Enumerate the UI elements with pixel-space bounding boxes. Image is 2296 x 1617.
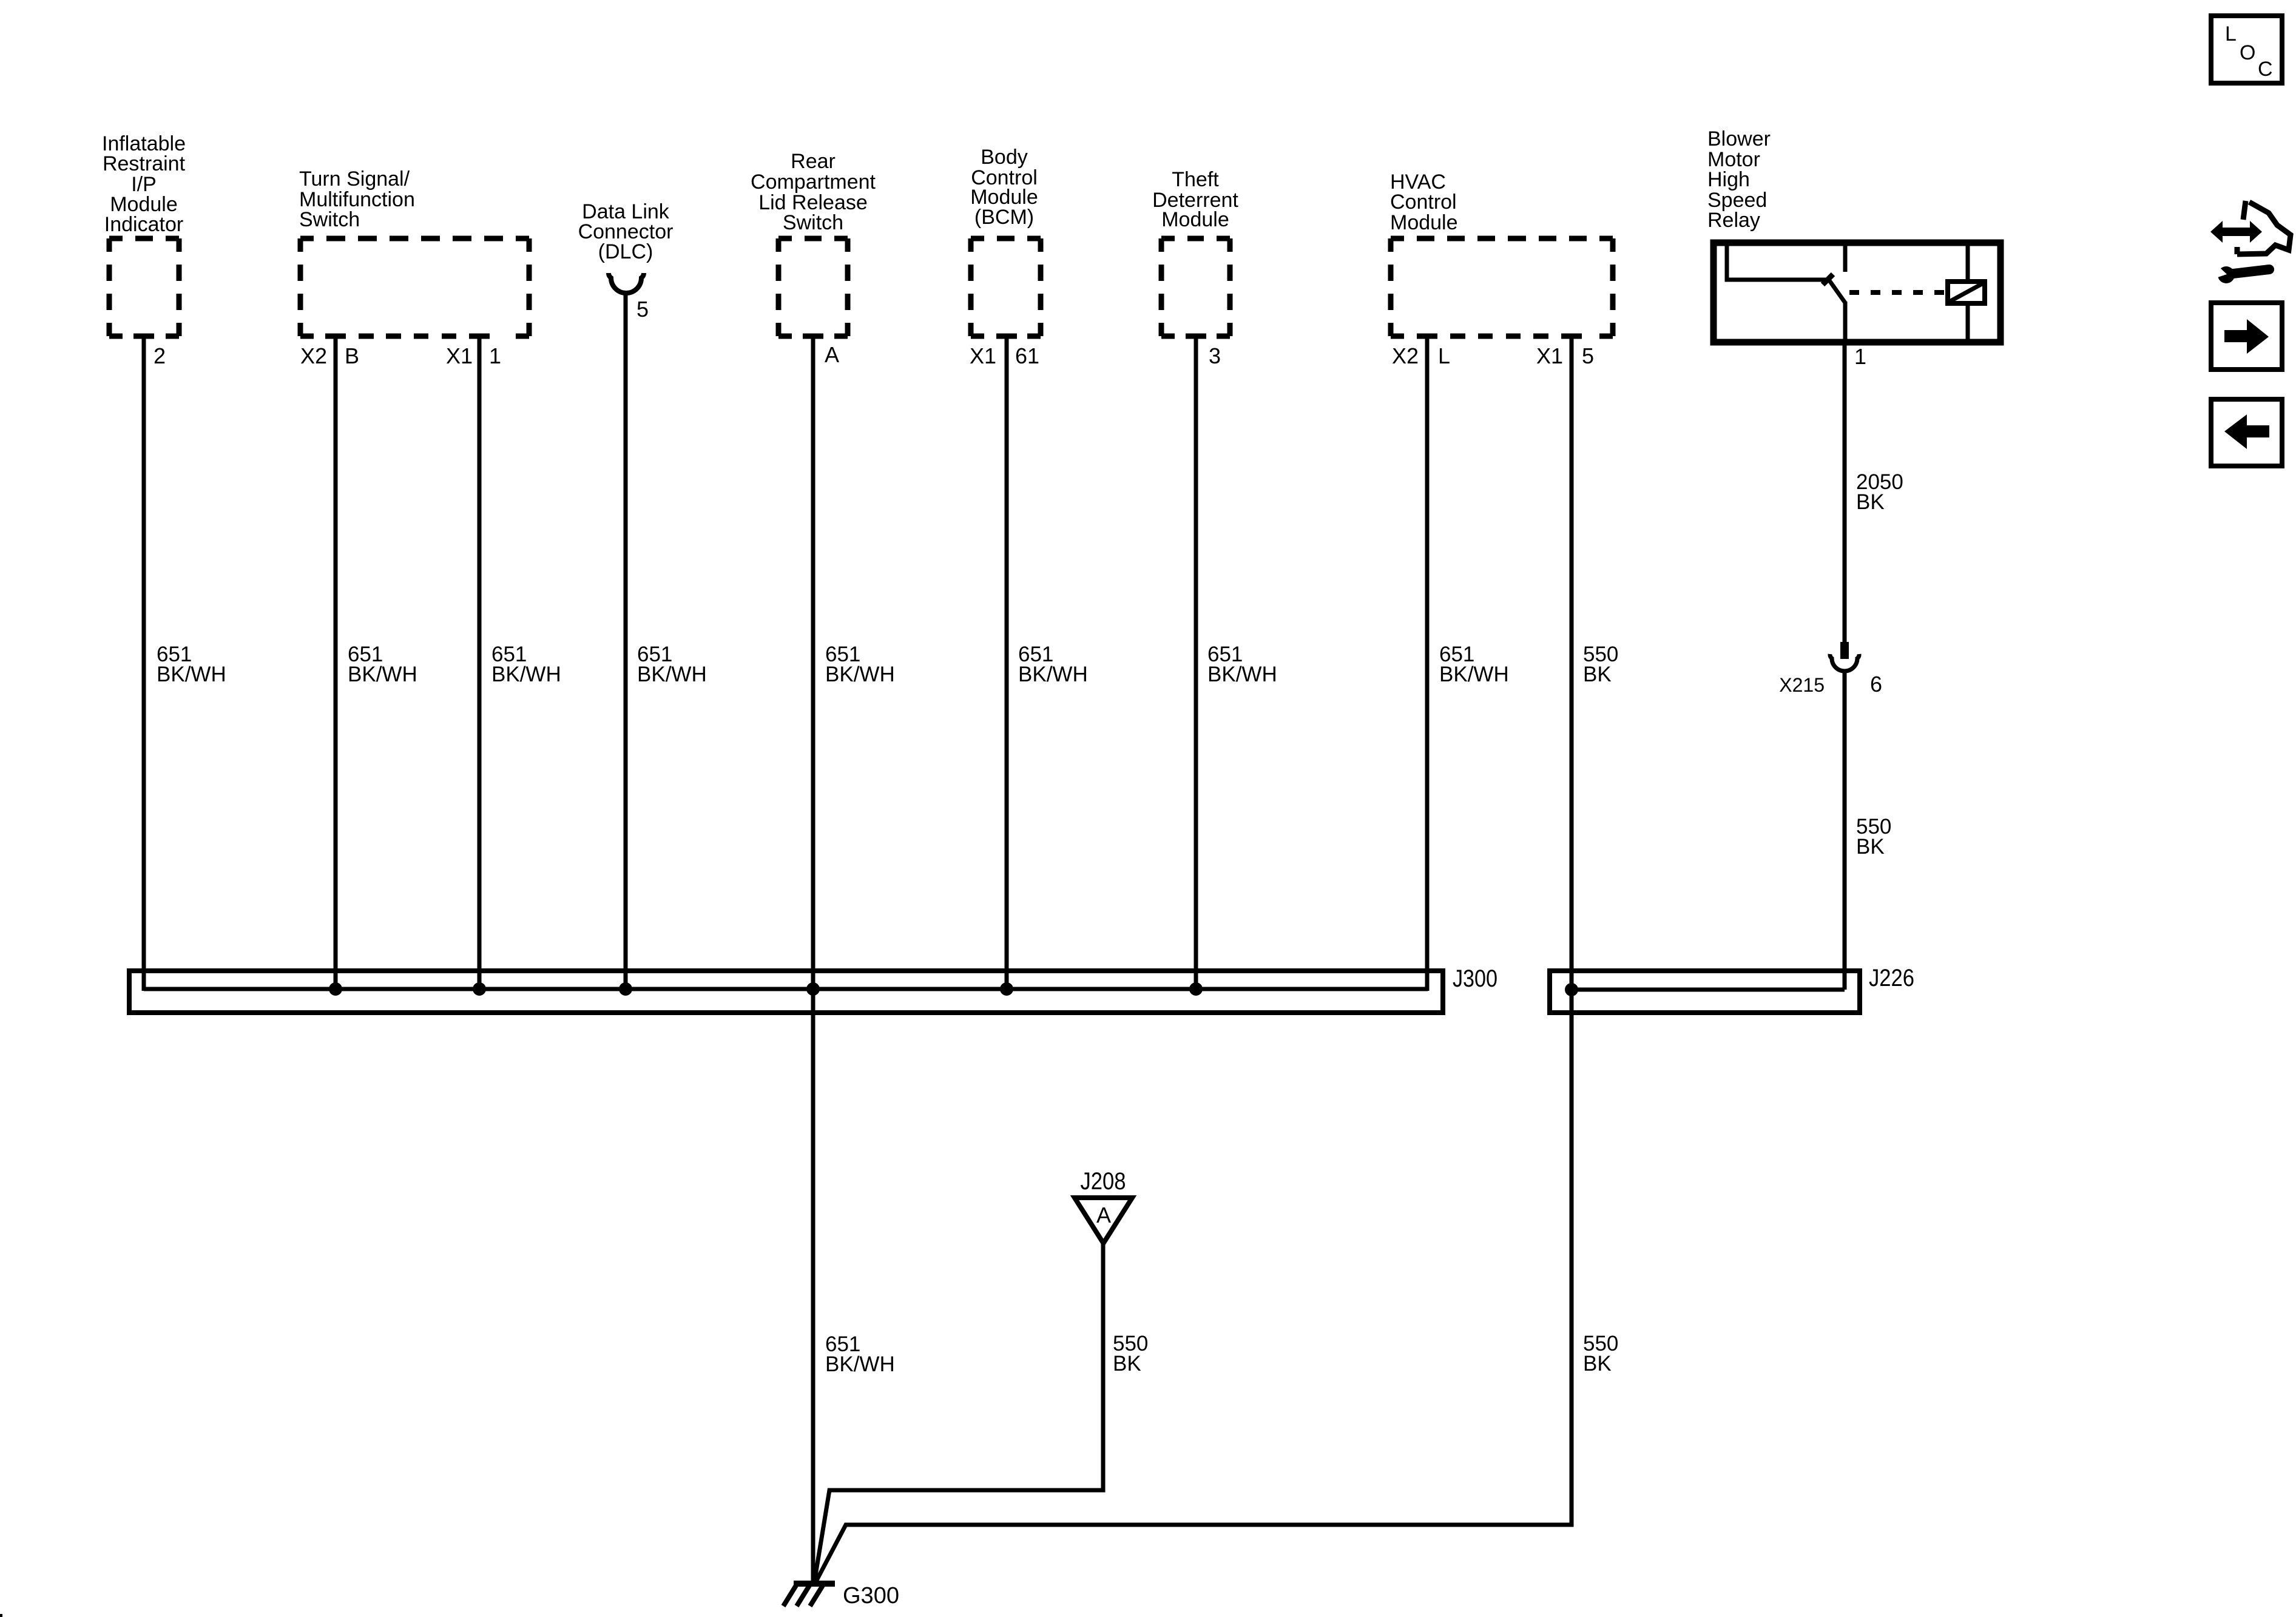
- wire label 550 BK (X215): [1856, 815, 1891, 859]
- wire label 651 BK/WH (M2 right): [491, 643, 561, 686]
- wire: J208 to G300 (550 BK): [814, 1243, 1103, 1582]
- wire: M2 pin X1-1 to J300 (651 BK/WH): [478, 336, 482, 991]
- pin label 1: [489, 343, 501, 368]
- module M4 box: BCM (dashed): [971, 238, 1041, 336]
- wire label 651 BK/WH (M2 left): [348, 643, 417, 686]
- svg-text:Compartment: Compartment: [751, 170, 876, 194]
- wire label 651 BK/WH (M3): [825, 643, 895, 686]
- svg-text:BK/WH: BK/WH: [1439, 663, 1509, 686]
- svg-text:X2: X2: [300, 343, 327, 368]
- wire: J300 to G300 (651 BK/WH): [811, 989, 815, 1584]
- wire label 651 BK/WH (HVAC): [1439, 643, 1509, 686]
- wire: X215 to J226 (550 BK): [1843, 671, 1847, 990]
- svg-text:L: L: [1438, 343, 1450, 368]
- svg-text:L: L: [2225, 22, 2237, 46]
- wire: DLC pin 5 to J300 (651 BK/WH): [624, 293, 628, 991]
- label G300: [843, 1583, 899, 1609]
- module M2 label: Turn Signal/Multifunction Switch: [299, 167, 415, 231]
- pin label B: [345, 343, 359, 368]
- svg-text:BK/WH: BK/WH: [157, 663, 226, 686]
- svg-text:Turn Signal/: Turn Signal/: [299, 167, 410, 191]
- module M3 label: Rear Compartment Lid Release Switch: [751, 150, 876, 234]
- wire label 651 BK/WH (ground leg): [825, 1332, 895, 1376]
- wire: HVAC pin X1-5 to J226 (550 BK): [1570, 336, 1574, 990]
- pin label 61: [1015, 343, 1039, 368]
- relay K1 coil box: [1948, 282, 1985, 303]
- splice pack J300 outline: [129, 971, 1443, 1013]
- icon: harness outline: [2237, 201, 2291, 254]
- splice pack J226 bus line: [1572, 988, 1845, 992]
- svg-text:C: C: [2258, 58, 2273, 81]
- svg-text:BK: BK: [1583, 1352, 1612, 1376]
- wire: HVAC pin X2-L to J300 (651 BK/WH): [1425, 336, 1430, 991]
- svg-text:61: 61: [1015, 343, 1039, 368]
- svg-text:J300: J300: [1453, 965, 1497, 992]
- module M5 box: Theft Deterrent Module (dashed): [1161, 238, 1230, 336]
- svg-text:X1: X1: [446, 343, 473, 368]
- svg-text:(DLC): (DLC): [598, 240, 653, 263]
- svg-text:BK: BK: [1856, 835, 1885, 859]
- relay K1 coil leads: [1966, 243, 1970, 342]
- pin label X2 (HVAC): [1392, 343, 1419, 368]
- page speck bottom-left: [0, 1614, 2, 1617]
- svg-text:X1: X1: [970, 343, 996, 368]
- module M1 box: Inflatable Restraint I/P Module Indicator (dashed): [109, 238, 179, 336]
- pin label 5 (DLC): [636, 297, 649, 322]
- splice pack J226 outline: [1550, 971, 1860, 1013]
- svg-text:Body: Body: [981, 146, 1028, 169]
- svg-text:J226: J226: [1869, 965, 1914, 991]
- label J226: [1869, 965, 1914, 991]
- inline connector X215 male terminal: [1840, 642, 1849, 659]
- pin label L: [1438, 343, 1450, 368]
- svg-text:2: 2: [154, 343, 166, 368]
- svg-text:5: 5: [1582, 343, 1594, 368]
- svg-text:G300: G300: [843, 1583, 899, 1609]
- relay K1 output lead to pin 1: [1843, 302, 1848, 342]
- module M6 box: HVAC Control Module (dashed): [1391, 238, 1613, 336]
- svg-text:6: 6: [1870, 672, 1882, 697]
- svg-text:BK/WH: BK/WH: [491, 663, 561, 686]
- relay K1 switch arm: [1829, 280, 1845, 303]
- relay K1 common feed (inner L line): [1727, 243, 1829, 280]
- svg-text:Module: Module: [1161, 208, 1229, 231]
- wire label 550 BK (HVAC): [1583, 643, 1618, 686]
- junction dot on J226: [1565, 983, 1578, 996]
- wire label 651 BK/WH (BCM): [1018, 643, 1088, 686]
- svg-text:A: A: [825, 342, 839, 367]
- svg-text:Indicator: Indicator: [104, 213, 183, 236]
- svg-text:Switch: Switch: [783, 211, 843, 234]
- svg-text:BK/WH: BK/WH: [1207, 663, 1277, 686]
- svg-text:5: 5: [636, 297, 649, 322]
- pin label X1: [446, 343, 473, 368]
- wire label 550 BK (J208 leg): [1113, 1332, 1148, 1376]
- pin label 2: [154, 343, 166, 368]
- splice pack J300 bus line: [144, 987, 1428, 991]
- relay K1 contact nub: [1823, 274, 1833, 285]
- wire label 651 BK/WH (M1): [157, 643, 226, 686]
- icon: arrow-left box: [2211, 399, 2282, 466]
- connector symbol: DLC female terminal (cup): [609, 273, 644, 293]
- svg-text:A: A: [1096, 1203, 1111, 1227]
- ground G300 symbol: [783, 1584, 835, 1606]
- pin label X2: [300, 343, 327, 368]
- svg-text:Switch: Switch: [299, 208, 360, 231]
- svg-text:Control: Control: [1390, 191, 1457, 214]
- relay label: Blower Motor High Speed Relay: [1707, 127, 1771, 232]
- svg-text:BK: BK: [1113, 1352, 1141, 1376]
- svg-text:High: High: [1707, 168, 1750, 191]
- wire: M2 pin X2-B to J300 (651 BK/WH): [334, 336, 338, 991]
- label J300: [1453, 965, 1497, 992]
- relay K1 fixed contact stub: [1843, 243, 1848, 272]
- wire label 2050 BK: [1856, 470, 1903, 514]
- pin label 5 (HVAC): [1582, 343, 1594, 368]
- relay K1 actuation dashed link: [1849, 290, 1946, 295]
- svg-text:BK/WH: BK/WH: [348, 663, 417, 686]
- icon: harness double arrow: [2210, 221, 2262, 243]
- svg-text:Theft: Theft: [1172, 168, 1219, 191]
- svg-text:(BCM): (BCM): [974, 206, 1034, 229]
- module M6 label: HVAC Control Module: [1390, 170, 1458, 234]
- svg-text:X215: X215: [1779, 674, 1825, 696]
- svg-text:X1: X1: [1536, 343, 1563, 368]
- junction dots on J300: [329, 982, 1203, 996]
- junction J208 triangle: [1075, 1198, 1132, 1243]
- wire label 651 BK/WH (M5): [1207, 643, 1277, 686]
- svg-text:Relay: Relay: [1707, 209, 1760, 232]
- svg-text:1: 1: [489, 343, 501, 368]
- svg-text:B: B: [345, 343, 359, 368]
- pin label 3: [1209, 343, 1221, 368]
- svg-text:BK: BK: [1856, 490, 1885, 514]
- wire: relay pin 1 to X215 (2050 BK): [1843, 342, 1847, 642]
- svg-text:BK/WH: BK/WH: [825, 663, 895, 686]
- wire: M3 pin A to J300 (651 BK/WH): [811, 336, 815, 991]
- relay K1 box: Blower Motor High Speed Relay: [1714, 243, 2001, 342]
- module M4 label: Body Control Module (BCM): [970, 146, 1038, 229]
- wire: M1 pin 2 to J300 (651 BK/WH): [142, 336, 146, 991]
- module M5 label: Theft Deterrent Module: [1152, 168, 1238, 231]
- icon: LOC box: [2211, 16, 2282, 83]
- svg-text:BK/WH: BK/WH: [825, 1352, 895, 1376]
- inline connector X215 female terminal (cup): [1830, 654, 1859, 671]
- wire: BCM pin X1-61 to J300 (651 BK/WH): [1005, 336, 1009, 991]
- svg-text:BK/WH: BK/WH: [1018, 663, 1088, 686]
- svg-text:1: 1: [1854, 344, 1866, 369]
- svg-text:Restraint: Restraint: [103, 152, 186, 175]
- svg-text:3: 3: [1209, 343, 1221, 368]
- svg-text:X2: X2: [1392, 343, 1419, 368]
- svg-text:BK/WH: BK/WH: [637, 663, 707, 686]
- wire label 651 BK/WH (DLC): [637, 643, 707, 686]
- wire: J226 to G300 (550 BK): [815, 990, 1572, 1584]
- icon: arrow-right box: [2211, 303, 2282, 370]
- module M3 box: Rear Compartment Lid Release Switch (dashed): [778, 238, 848, 336]
- svg-text:BK: BK: [1583, 663, 1612, 686]
- pin label 1 (relay): [1854, 344, 1866, 369]
- svg-text:O: O: [2240, 41, 2255, 64]
- label A (J208): [1096, 1203, 1111, 1227]
- wire: M5 pin 3 to J300 (651 BK/WH): [1194, 336, 1198, 991]
- svg-text:Module: Module: [1390, 211, 1458, 234]
- svg-text:J208: J208: [1081, 1168, 1126, 1195]
- pin label A: [825, 342, 839, 367]
- pin label 6 (X215): [1870, 672, 1882, 697]
- svg-text:Rear: Rear: [791, 150, 836, 173]
- connector label: Data Link Connector (DLC): [578, 200, 674, 263]
- label X215: [1779, 674, 1825, 696]
- pin label X1 (HVAC): [1536, 343, 1563, 368]
- pin label X1 (BCM): [970, 343, 996, 368]
- svg-text:Blower: Blower: [1707, 127, 1771, 150]
- module M2 box: Turn Signal/Multifunction Switch (dashed): [300, 238, 529, 336]
- wire label 550 BK (J226 leg): [1583, 1332, 1618, 1376]
- module M1 label: Inflatable Restraint I/P Module Indicator: [102, 132, 186, 236]
- icon: wrench: [2212, 263, 2269, 283]
- label J208: [1081, 1168, 1126, 1195]
